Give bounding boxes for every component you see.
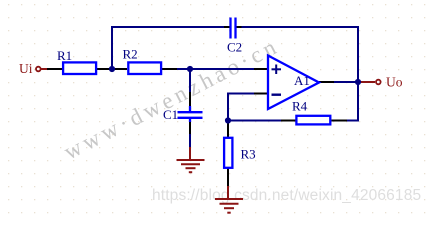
svg-text:R4: R4 (292, 99, 308, 114)
svg-text:R1: R1 (57, 48, 72, 63)
svg-text:R2: R2 (123, 47, 138, 62)
svg-text:R3: R3 (241, 147, 256, 162)
svg-text:A1: A1 (294, 73, 310, 88)
svg-text:https://blog.csdn.net/weixin_4: https://blog.csdn.net/weixin_42066185 (152, 187, 421, 204)
svg-text:Uo: Uo (386, 75, 403, 90)
svg-text:C2: C2 (227, 40, 242, 55)
svg-text:Ui: Ui (19, 61, 33, 76)
svg-text:C1: C1 (163, 107, 178, 122)
